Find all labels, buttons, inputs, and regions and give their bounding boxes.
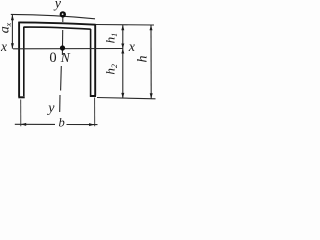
svg-text:0: 0 [49,50,56,66]
svg-text:b: b [59,116,65,130]
svg-text:N: N [60,50,71,65]
svg-text:y: y [53,0,62,12]
svg-text:y: y [46,101,55,116]
svg-text:x: x [0,39,7,54]
svg-text:h: h [136,56,151,63]
svg-text:x: x [128,40,136,55]
